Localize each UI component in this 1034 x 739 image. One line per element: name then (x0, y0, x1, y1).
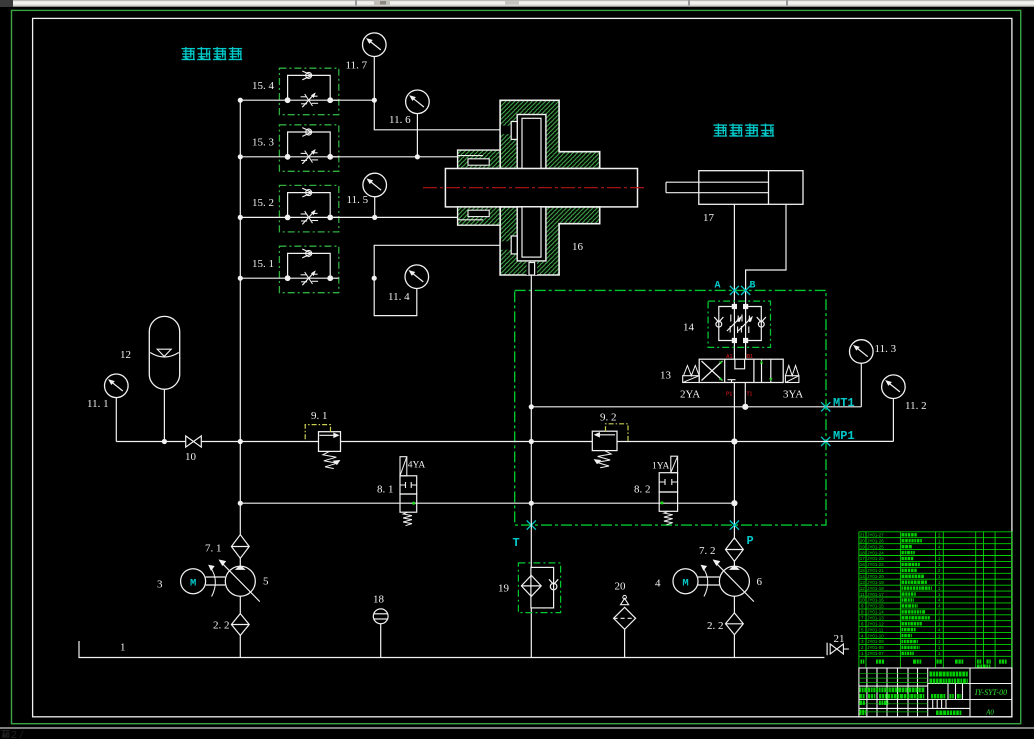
relief valve 9.1 spring (323, 451, 337, 468)
svg-text:JY01-19: JY01-19 (867, 580, 884, 585)
svg-text:18: 18 (373, 594, 385, 606)
module 14 right loop (746, 307, 762, 341)
svg-text:1: 1 (938, 550, 941, 555)
module 15. 1 check valve (306, 250, 312, 256)
wire main pressure line y441 (116, 441, 185, 443)
svg-text:1: 1 (938, 610, 941, 615)
module 14 throttle right (741, 315, 743, 322)
coupling 16 lower hub hatched (500, 207, 600, 275)
svg-text:T: T (513, 536, 520, 550)
svg-text:9. 2: 9. 2 (600, 412, 617, 424)
svg-text:JY01-12: JY01-12 (867, 622, 884, 627)
svg-text:19: 19 (498, 583, 510, 595)
svg-text:T1: T1 (747, 391, 753, 397)
module 15. 3 nodes (285, 154, 291, 160)
module 15. 3 check valve (306, 129, 312, 135)
coupling 16 top port (501, 126, 512, 134)
svg-text:P1: P1 (726, 391, 732, 397)
wire T column vertical (530, 275, 532, 567)
sheet tab label (2, 730, 10, 738)
svg-text:12: 12 (860, 586, 866, 591)
module 15. 2 nodes (285, 215, 291, 221)
svg-text:3YA: 3YA (783, 389, 803, 401)
svg-text:7. 1: 7. 1 (205, 543, 222, 555)
module 15. 1 nodes (285, 275, 291, 281)
wire MT1 line (531, 406, 861, 408)
svg-text:M: M (682, 578, 688, 590)
svg-text:P: P (747, 534, 754, 548)
pump variable arrow (715, 562, 754, 601)
svg-text:5: 5 (263, 576, 269, 588)
valve 13 centre position blocked (735, 359, 745, 369)
collar step detail lower (468, 210, 489, 216)
gauge 11.4 (405, 265, 429, 289)
svg-text:7: 7 (861, 616, 864, 621)
svg-text:JY01-22: JY01-22 (867, 562, 884, 567)
module 15. 4 check valve (306, 72, 312, 78)
module 15. 2 throttle valve (301, 213, 307, 215)
filter 19 body (531, 567, 554, 608)
svg-text:2: 2 (861, 645, 864, 650)
directional valve 13 body (699, 359, 783, 382)
svg-text:1: 1 (938, 616, 941, 621)
svg-text:JY01-27: JY01-27 (867, 533, 884, 538)
svg-text:1: 1 (938, 633, 941, 638)
svg-text:JY01-13: JY01-13 (867, 616, 884, 621)
module 15. 3 throttle valve (301, 152, 307, 154)
svg-text:1: 1 (938, 645, 941, 650)
pump circle (719, 566, 749, 596)
module 15. 3 bypass loop (288, 132, 331, 157)
rotation arrow (703, 568, 708, 597)
svg-text:1YA: 1YA (652, 462, 670, 472)
nodes on pressure line (162, 439, 167, 444)
coupling 16 lower slot outer (517, 207, 546, 261)
svg-text:10: 10 (860, 598, 866, 603)
valve 8.2 spring (664, 511, 673, 525)
svg-text:11. 7: 11. 7 (346, 60, 368, 72)
svg-text:1: 1 (938, 574, 941, 579)
svg-text:4: 4 (938, 604, 941, 609)
cylinder 17 body (699, 171, 803, 205)
svg-text:JY01-21: JY01-21 (867, 568, 884, 573)
svg-text:9. 1: 9. 1 (311, 410, 328, 422)
MT1 riser to gauge 11.3 (860, 363, 862, 407)
toolbar strip top (0, 0, 1034, 7)
coupling 16 lower slot inner (522, 207, 541, 257)
title block sheet row text (936, 711, 939, 716)
svg-text:15. 2: 15. 2 (252, 197, 274, 209)
collar step detail upper (468, 159, 489, 165)
svg-text:A1: A1 (726, 354, 733, 360)
svg-text:JY01-23: JY01-23 (867, 556, 884, 561)
module 15. 4 bypass loop (288, 75, 331, 100)
coupling 16 upper-left collar hatched (458, 150, 501, 168)
rotation arrow (211, 568, 216, 597)
svg-text:1: 1 (938, 592, 941, 597)
oil tank 1 (79, 641, 824, 658)
svg-text:1: 1 (938, 586, 941, 591)
svg-text:2: 2 (938, 568, 941, 573)
motor circle (181, 569, 206, 594)
coupling 16 shaft (445, 169, 637, 207)
svg-text:16: 16 (860, 562, 866, 567)
wires pump column left (239, 503, 241, 535)
svg-text:2YA: 2YA (680, 389, 700, 401)
svg-text:10: 10 (185, 451, 197, 463)
svg-text:2: 2 (938, 533, 941, 538)
valve 13 right position straight arrows (761, 359, 763, 382)
title block (859, 668, 1012, 717)
module 14 node squares (732, 304, 737, 309)
wire drop to coupling top port (374, 100, 510, 130)
svg-text:B: B (750, 281, 756, 292)
wire 15.1 riser to coupling lower port (374, 245, 510, 278)
coupling 16 lower port (501, 241, 512, 249)
svg-text:17: 17 (703, 212, 715, 224)
svg-text:JY01-10: JY01-10 (867, 633, 884, 638)
svg-text:A: A (715, 281, 721, 292)
svg-text:11. 5: 11. 5 (347, 194, 369, 206)
svg-text:4: 4 (861, 633, 864, 638)
svg-text:9: 9 (861, 604, 864, 609)
breather 20 (621, 598, 629, 604)
svg-text:M: M (190, 578, 196, 590)
svg-text:2: 2 (11, 730, 17, 739)
svg-text:1: 1 (861, 651, 864, 656)
svg-text:21: 21 (860, 533, 866, 538)
red centerline (423, 187, 645, 189)
svg-text:11. 3: 11. 3 (875, 343, 897, 355)
suction filter 7.2 (726, 538, 744, 562)
cylinder 17 rod (666, 181, 769, 183)
module 15. 1 throttle valve (301, 274, 307, 276)
motor circle (673, 569, 698, 594)
pump variable arrow (221, 562, 260, 601)
level gauge 18 (373, 609, 388, 624)
gauge 11.4 hook wire (374, 278, 417, 315)
svg-text:20: 20 (860, 539, 866, 544)
svg-text:JY01-17: JY01-17 (867, 592, 884, 597)
svg-text:8. 2: 8. 2 (634, 484, 651, 496)
svg-text:1: 1 (938, 580, 941, 585)
svg-text:8: 8 (861, 610, 864, 615)
module 15. 2 wire (240, 216, 287, 218)
module 15. 1 wire (240, 277, 287, 279)
left supply bus vertical (239, 100, 241, 503)
module 15. 4 throttle valve (301, 96, 307, 98)
tank right wall (826, 643, 828, 656)
svg-text:JY01-24: JY01-24 (867, 550, 884, 555)
wire 15.4 to gauge branch (330, 99, 374, 101)
svg-text:4: 4 (938, 598, 941, 603)
svg-text:18: 18 (860, 550, 866, 555)
svg-text:11. 6: 11. 6 (389, 114, 411, 126)
throttle-check module 15. 1 green box (279, 246, 338, 293)
wire 15.3 extension to coupling (330, 156, 457, 158)
solenoid valve 8.1 (400, 476, 417, 494)
svg-text:21: 21 (834, 633, 845, 645)
accumulator stem (163, 389, 165, 441)
relief valve 9.2 pilot dashed (606, 424, 629, 442)
svg-text:6: 6 (757, 576, 763, 588)
svg-text:13: 13 (860, 580, 866, 585)
svg-text:15. 4: 15. 4 (252, 80, 275, 92)
MT1 port mark (821, 402, 830, 411)
module 15. 4 nodes (285, 97, 291, 103)
module 14 throttle left (730, 315, 732, 322)
port B mark (741, 286, 750, 295)
svg-text:3: 3 (861, 639, 864, 644)
wire cylinder B line (746, 204, 786, 359)
MP1 port mark (821, 437, 830, 446)
MP1 riser to gauge 11.2 (892, 399, 894, 442)
svg-text:JY01-15: JY01-15 (867, 604, 884, 609)
svg-text:MT1: MT1 (833, 396, 855, 410)
port T mark (527, 521, 536, 530)
valve 13 right solenoid (785, 376, 799, 383)
svg-text:JY01-07: JY01-07 (867, 651, 884, 656)
svg-text:19: 19 (860, 544, 866, 549)
svg-text:JY01-25: JY01-25 (867, 544, 884, 549)
module 15. 2 check valve (306, 190, 312, 196)
port A mark (730, 286, 739, 295)
wire valve13 P to pump 6 (733, 383, 735, 540)
svg-text:JY01-26: JY01-26 (867, 539, 884, 544)
svg-text:1: 1 (938, 622, 941, 627)
wire cylinder A line (733, 204, 735, 359)
label header supply system (182, 47, 196, 60)
svg-text:1: 1 (938, 539, 941, 544)
filter 2.2 right (726, 613, 744, 635)
shaft (698, 576, 719, 578)
status bar bottom (0, 727, 1034, 729)
svg-text:11. 1: 11. 1 (87, 398, 109, 410)
svg-text:2. 2: 2. 2 (707, 620, 724, 632)
svg-text:JY01-18: JY01-18 (867, 586, 884, 591)
svg-text:15. 3: 15. 3 (252, 137, 275, 149)
svg-text:6: 6 (861, 622, 864, 627)
module 15. 1 bypass loop (288, 253, 331, 278)
valve 8.2 solenoid coil (671, 456, 678, 473)
dual throttle check module 14 green box (708, 301, 770, 347)
svg-text:3: 3 (157, 579, 163, 591)
svg-text:4YA: 4YA (408, 460, 426, 470)
svg-text:JY01-09: JY01-09 (867, 639, 884, 644)
valve 13 right spring (785, 366, 799, 376)
relief valve 9.1 (319, 432, 341, 452)
svg-text:11: 11 (860, 592, 865, 597)
valve 13 left spring (684, 366, 700, 376)
svg-text:1: 1 (938, 556, 941, 561)
svg-text:4: 4 (938, 544, 941, 549)
gauge 11.6 (406, 90, 430, 114)
valve 8.1 solenoid coil (400, 457, 407, 476)
relief valve 9.2 (592, 431, 617, 450)
gauge 11.7 (363, 33, 387, 57)
svg-text:1: 1 (938, 639, 941, 644)
shaft (206, 576, 226, 578)
svg-text:A0: A0 (985, 709, 994, 717)
title block drawing name (930, 672, 933, 677)
svg-text:JY01-20: JY01-20 (867, 574, 884, 579)
svg-text:14: 14 (860, 574, 866, 579)
coupling 16 upper slot inner (522, 118, 541, 168)
svg-text:JY01-14: JY01-14 (867, 610, 884, 615)
svg-text:17: 17 (860, 556, 866, 561)
svg-text:8. 1: 8. 1 (377, 484, 394, 496)
filter 19 diamond (521, 575, 541, 596)
accumulator 12 (149, 316, 179, 389)
module 15. 3 wire (240, 156, 287, 158)
svg-text:12: 12 (120, 349, 131, 361)
svg-text:B1: B1 (747, 354, 754, 360)
suction filter 7.1 (231, 535, 249, 559)
module 14 left loop (719, 307, 735, 341)
gauge 11.1 (105, 374, 129, 398)
svg-text:MP1: MP1 (833, 429, 855, 443)
parts list table (859, 532, 1012, 668)
module 15. 2 bypass loop (288, 193, 331, 218)
gauge 11.5 (363, 173, 387, 197)
svg-text:JY01-11: JY01-11 (867, 627, 884, 632)
port P mark (730, 521, 739, 530)
throttle-check module 15. 4 green box (279, 68, 338, 115)
svg-text:1: 1 (938, 651, 941, 656)
coupling 16 upper hub hatched (500, 100, 600, 168)
svg-text:14: 14 (683, 322, 695, 334)
shutoff valve 10 (186, 436, 194, 447)
module 14 check valve right (758, 321, 764, 327)
drain valve 21 (830, 644, 837, 654)
return filter 19 green box (518, 563, 560, 613)
node at 15.4/11.7 junction (372, 98, 377, 103)
svg-text:16: 16 (572, 241, 584, 253)
svg-text:4: 4 (655, 578, 661, 590)
wires pump column right (733, 560, 735, 568)
cylinder 17 piston (768, 171, 770, 205)
valve 13 left position cross arrows (702, 361, 723, 381)
filter 2.2 left (231, 614, 249, 636)
svg-text:1: 1 (938, 562, 941, 567)
svg-text:15: 15 (860, 568, 866, 573)
title block signatures text (860, 688, 862, 693)
svg-text:11. 4: 11. 4 (388, 291, 410, 303)
gauge 11.3 (850, 340, 874, 364)
svg-text:5: 5 (861, 627, 864, 632)
wire lower bus y503 (240, 502, 400, 504)
module 15. 4 wire (240, 99, 287, 101)
label header loading system (714, 124, 728, 137)
svg-text:13: 13 (660, 370, 672, 382)
relief valve 9.1 pilot dashed (305, 425, 330, 442)
pump circle (225, 566, 255, 596)
valve 8.1 spring (403, 512, 412, 526)
coupling 16 upper slot outer (517, 115, 546, 169)
svg-text:IY-SYT-00: IY-SYT-00 (974, 688, 1007, 697)
svg-text:20: 20 (615, 581, 627, 593)
title block thin green rules (859, 674, 928, 712)
wire 15.2 extension to coupling (330, 216, 457, 218)
relief valve 9.2 spring (597, 451, 611, 468)
filter 19 bypass check valve (550, 583, 557, 590)
solenoid valve 8.2 (659, 473, 677, 492)
svg-text:JY01-08: JY01-08 (867, 645, 884, 650)
valve 13 left solenoid (683, 376, 700, 383)
svg-text:7. 2: 7. 2 (699, 545, 716, 557)
svg-text:11. 2: 11. 2 (905, 400, 927, 412)
throttle-check module 15. 3 green box (279, 125, 338, 172)
svg-text:4: 4 (938, 627, 941, 632)
svg-text:2. 2: 2. 2 (213, 620, 230, 632)
svg-text:JY01-16: JY01-16 (867, 598, 884, 603)
wire valve13 T to MT1 (744, 383, 746, 407)
svg-text:1: 1 (120, 642, 126, 654)
title block stage row text (931, 694, 933, 699)
parts list header text (861, 660, 863, 664)
coupling 16 bottom stem port (527, 263, 538, 276)
module 14 check valve left (716, 321, 722, 327)
gauge 11.2 (882, 375, 906, 399)
loading system boundary green box (515, 290, 826, 525)
coupling 16 lower-left collar hatched (458, 207, 501, 225)
throttle-check module 15. 2 green box (279, 185, 338, 232)
svg-text:15. 1: 15. 1 (252, 258, 274, 270)
